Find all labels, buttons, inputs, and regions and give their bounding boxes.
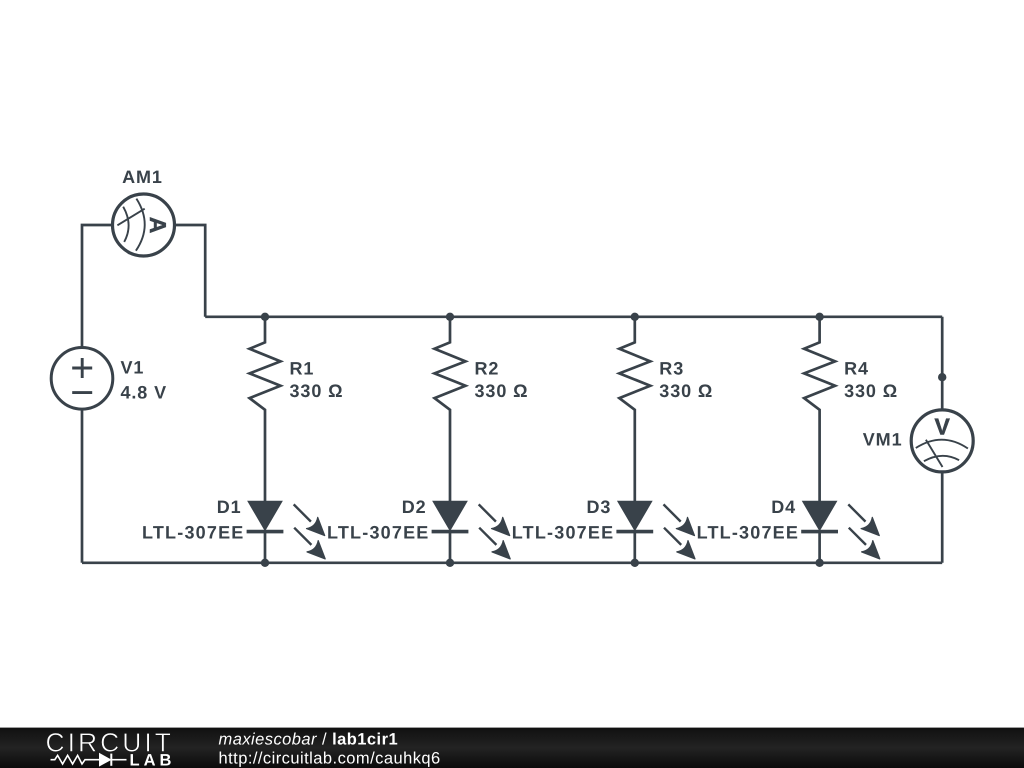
wire V1 bottom lead bbox=[81, 409, 84, 563]
node bottom D2 bbox=[446, 559, 454, 567]
svg-text:330 Ω: 330 Ω bbox=[475, 381, 529, 401]
LED D3 bbox=[616, 501, 695, 563]
resistor R1 bbox=[250, 317, 281, 501]
resistor R2 bbox=[435, 317, 466, 501]
svg-text:maxiescobar / lab1cir1: maxiescobar / lab1cir1 bbox=[219, 731, 399, 749]
svg-text:LAB: LAB bbox=[130, 751, 176, 768]
svg-text:R4: R4 bbox=[844, 359, 869, 379]
node bottom D4 bbox=[815, 559, 823, 567]
COLUMN 2 bbox=[327, 313, 528, 567]
svg-text:D1: D1 bbox=[217, 497, 242, 517]
svg-text:R1: R1 bbox=[290, 359, 315, 379]
voltage source V1 bbox=[51, 348, 113, 410]
svg-text:D3: D3 bbox=[586, 497, 611, 517]
COLUMN 3 bbox=[512, 313, 713, 567]
wire bottom bus bbox=[82, 561, 942, 564]
svg-text:VM1: VM1 bbox=[863, 429, 903, 449]
node top R3 bbox=[631, 313, 639, 321]
svg-text:A: A bbox=[145, 217, 171, 234]
node bottom D3 bbox=[631, 559, 639, 567]
svg-text:D2: D2 bbox=[402, 497, 427, 517]
svg-text:330 Ω: 330 Ω bbox=[290, 381, 344, 401]
node top R1 bbox=[261, 313, 269, 321]
voltmeter VM1 bbox=[911, 410, 973, 472]
wire V1 top to AM1 bbox=[82, 225, 112, 348]
LED D2 bbox=[432, 501, 511, 563]
svg-text:330 Ω: 330 Ω bbox=[659, 381, 713, 401]
svg-text:AM1: AM1 bbox=[122, 167, 163, 187]
resistor R3 bbox=[619, 317, 650, 501]
node bottom D1 bbox=[261, 559, 269, 567]
node top R4 bbox=[815, 313, 823, 321]
LED D1 bbox=[247, 501, 326, 563]
footer bar bbox=[0, 728, 1024, 768]
svg-text:http://circuitlab.com/cauhkq6: http://circuitlab.com/cauhkq6 bbox=[219, 750, 441, 768]
COLUMN 4 bbox=[697, 313, 898, 567]
CircuitLab logo resistor-diode glyph bbox=[51, 754, 127, 766]
wire top bus bbox=[205, 315, 942, 318]
ammeter AM1 bbox=[113, 194, 175, 256]
resistor R4 bbox=[804, 317, 835, 501]
svg-text:V: V bbox=[935, 413, 951, 439]
wire VM1 bottom to bottom bus bbox=[941, 472, 944, 563]
svg-text:R2: R2 bbox=[475, 359, 500, 379]
LED D4 bbox=[801, 501, 880, 563]
svg-text:R3: R3 bbox=[659, 359, 684, 379]
COLUMN 1 bbox=[142, 313, 343, 567]
svg-text:4.8 V: 4.8 V bbox=[121, 383, 168, 403]
svg-text:LTL-307EE: LTL-307EE bbox=[327, 523, 430, 543]
svg-text:LTL-307EE: LTL-307EE bbox=[142, 523, 245, 543]
credits text bbox=[219, 731, 441, 768]
svg-text:LTL-307EE: LTL-307EE bbox=[697, 523, 800, 543]
svg-text:330 Ω: 330 Ω bbox=[844, 381, 898, 401]
svg-text:V1: V1 bbox=[121, 358, 145, 378]
node on right wire bbox=[938, 373, 946, 381]
svg-text:D4: D4 bbox=[771, 497, 796, 517]
node top R2 bbox=[446, 313, 454, 321]
CircuitLab logo text bbox=[46, 728, 176, 768]
wire right vertical to VM1 bbox=[941, 317, 944, 410]
wire AM1 right down to top bus bbox=[175, 225, 206, 317]
svg-text:LTL-307EE: LTL-307EE bbox=[512, 523, 615, 543]
